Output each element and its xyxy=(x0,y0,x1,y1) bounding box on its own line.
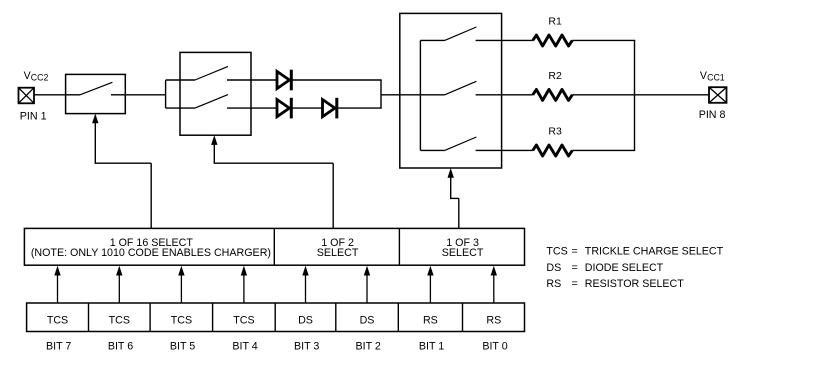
wire S2 lower to diode D2 xyxy=(227,107,277,109)
svg-text:BIT 1: BIT 1 xyxy=(419,340,444,352)
svg-text:TCS: TCS xyxy=(47,314,68,326)
wire S3 row1 to resistor R1 xyxy=(476,39,533,41)
control wire select1 to S1 (arrow) xyxy=(92,114,151,229)
bit arrow BIT1 xyxy=(427,266,433,303)
switch box S3 (resistor select, three switches) xyxy=(400,13,502,168)
svg-text:DS: DS xyxy=(546,262,561,274)
legend TCS xyxy=(546,245,723,257)
svg-text:(NOTE: ONLY 1010 CODE ENABLES: (NOTE: ONLY 1010 CODE ENABLES CHARGER) xyxy=(31,247,271,259)
label 1 OF 3 SELECT xyxy=(442,237,484,259)
svg-text:RESISTOR SELECT: RESISTOR SELECT xyxy=(585,278,684,290)
svg-text:BIT 5: BIT 5 xyxy=(170,340,195,352)
wire branch to S2 lower xyxy=(166,107,195,109)
label 1 OF 16 SELECT xyxy=(31,237,271,259)
svg-text:BIT 4: BIT 4 xyxy=(232,340,257,352)
junction vertical (diode outputs join) xyxy=(380,80,382,108)
diode D1 xyxy=(277,70,291,91)
svg-text:RS: RS xyxy=(546,278,561,290)
node branch vertical (diode select input) xyxy=(165,80,167,108)
svg-text:TRICKLE CHARGE SELECT: TRICKLE CHARGE SELECT xyxy=(585,245,724,257)
resistor R1 xyxy=(533,35,573,46)
bit arrow BIT6 xyxy=(116,266,122,303)
bit arrow BIT3 xyxy=(302,266,308,303)
control wire select2 to S2 (arrow) xyxy=(211,135,333,228)
wire bus to VCC1 xyxy=(635,94,710,96)
legend DS xyxy=(546,262,663,274)
divider cell 7|6 xyxy=(88,303,90,332)
divider cell 6|5 xyxy=(149,303,151,332)
legend RS xyxy=(546,278,684,290)
svg-text:BIT 0: BIT 0 xyxy=(482,340,507,352)
wire S1 to diode-select branch node xyxy=(125,94,165,96)
svg-text:=: = xyxy=(572,245,578,257)
bit arrow BIT5 xyxy=(178,266,184,303)
divider decoder 2|3 xyxy=(398,228,400,265)
bit arrow BIT0 xyxy=(491,266,497,303)
svg-text:TCS: TCS xyxy=(109,314,130,326)
bit arrow BIT7 xyxy=(54,266,60,303)
wire R3 to right bus xyxy=(572,149,635,151)
bit arrow BIT2 xyxy=(364,266,370,303)
svg-text:CC1: CC1 xyxy=(707,73,725,83)
label VCC2 xyxy=(24,70,49,83)
svg-text:BIT 6: BIT 6 xyxy=(108,340,133,352)
divider decoder 1|2 xyxy=(273,228,275,265)
wire D1 to junction xyxy=(293,79,382,81)
svg-text:=: = xyxy=(572,278,578,290)
wire D3 to junction xyxy=(338,107,382,109)
wire VCC2 to switch S1 xyxy=(34,94,66,96)
wire S3 row2 to resistor R2 xyxy=(476,94,533,96)
divider cell 4|3 xyxy=(274,303,276,332)
svg-text:DS: DS xyxy=(360,314,375,326)
power pin VCC1 (PIN 8) xyxy=(709,87,727,103)
svg-text:DS: DS xyxy=(298,314,313,326)
switch box S2 (diode select, two switches) xyxy=(180,52,251,135)
svg-text:TCS: TCS xyxy=(171,314,192,326)
svg-text:DIODE SELECT: DIODE SELECT xyxy=(585,262,664,274)
right bus vertical (resistor outputs join) xyxy=(634,40,636,150)
svg-text:BIT 3: BIT 3 xyxy=(294,340,319,352)
wire D2 to diode D3 xyxy=(293,107,323,109)
svg-text:CC2: CC2 xyxy=(31,73,49,83)
svg-text:RS: RS xyxy=(423,314,438,326)
svg-text:TCS: TCS xyxy=(233,314,254,326)
svg-text:TCS: TCS xyxy=(546,245,567,257)
svg-text:BIT 7: BIT 7 xyxy=(46,340,71,352)
svg-text:R1: R1 xyxy=(548,16,562,28)
divider cell 2|1 xyxy=(397,303,399,332)
decoder box row (1 of 16 / 1 of 2 / 1 of 3) xyxy=(24,228,524,265)
divider cell 5|4 xyxy=(212,303,214,332)
wire R2 to right bus xyxy=(572,94,635,96)
control wire select3 to S3 (arrow) xyxy=(448,168,459,228)
svg-text:PIN 8: PIN 8 xyxy=(699,109,726,121)
resistor R3 xyxy=(533,145,573,156)
power pin VCC2 (PIN 1) xyxy=(19,88,35,104)
divider cell 1|0 xyxy=(462,303,464,332)
wire R1 to right bus xyxy=(572,39,635,41)
svg-text:=: = xyxy=(572,262,578,274)
diode D3 xyxy=(323,98,337,119)
svg-text:R2: R2 xyxy=(548,70,562,82)
label VCC1 xyxy=(700,70,725,83)
diode D2 xyxy=(277,98,291,119)
label 1 OF 2 SELECT xyxy=(317,237,359,259)
svg-text:SELECT: SELECT xyxy=(317,247,359,259)
svg-text:BIT 2: BIT 2 xyxy=(356,340,381,352)
bit arrow BIT4 xyxy=(241,266,247,303)
switch box S1 (trickle charge enable) xyxy=(66,74,126,113)
register bit cell row xyxy=(27,303,525,332)
wire junction to S3 xyxy=(381,94,420,96)
svg-text:PIN 1: PIN 1 xyxy=(20,111,47,123)
divider cell 3|2 xyxy=(335,303,337,332)
wire S2 upper to diode D1 xyxy=(227,79,277,81)
wire S3 row3 to resistor R3 xyxy=(476,149,533,151)
wire branch to S2 upper xyxy=(166,79,195,81)
resistor R2 xyxy=(533,89,573,100)
svg-text:R3: R3 xyxy=(548,126,562,138)
svg-text:RS: RS xyxy=(486,314,501,326)
svg-text:SELECT: SELECT xyxy=(442,247,484,259)
